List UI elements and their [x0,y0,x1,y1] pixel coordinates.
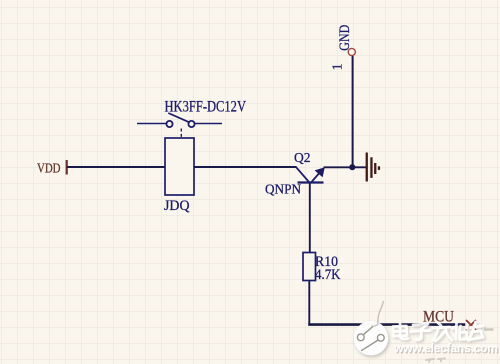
svg-text:VDD: VDD [37,162,61,177]
svg-text:Q2: Q2 [294,151,311,166]
svg-text:HK3FF-DC12V: HK3FF-DC12V [165,99,247,116]
svg-text:4.7K: 4.7K [315,267,341,283]
svg-text:1: 1 [331,63,346,70]
glyph you [469,322,484,341]
svg-text:www.elecfans.com: www.elecfans.com [393,341,498,355]
faint bottom watermark remnant [426,359,445,363]
port VDD [37,160,68,177]
wire bottom rail to MCU [308,323,467,326]
port MCU [466,320,476,330]
glyph fa [433,322,453,341]
relay switch blade [168,113,189,122]
wire Q2 emitter to ground node [324,166,353,168]
watermark dash [484,328,494,331]
GND pin terminal circle [348,48,355,55]
glyph zi [411,324,431,340]
transistor Q2 [296,167,325,183]
wire GND pin vertical [352,56,354,167]
wire relay coil to Q2 collector [194,166,297,168]
resistor R10 [303,253,316,281]
watermark logo [354,301,388,355]
svg-text:QNPN: QNPN [265,182,301,197]
relay switch contact right lead [194,123,222,125]
wire Q2 base lead [309,183,311,253]
relay actuator dashed link [180,129,182,139]
svg-text:GND: GND [337,25,353,51]
ground symbol [366,153,380,182]
glyph dian [393,322,408,339]
relay switch contact left terminal [166,121,172,127]
glyph shao [452,324,467,340]
watermark text dianzifashaoyou [393,322,483,341]
watermark url [393,341,499,356]
relay switch contact right terminal [188,121,194,127]
wire VDD to relay coil [67,166,165,168]
svg-text:JDQ: JDQ [164,198,190,214]
relay coil JDQ [165,138,194,195]
junction node [349,164,355,170]
wire R10 to bottom rail [308,281,310,325]
wire node to ground symbol [355,166,366,168]
relay switch contact left lead [137,123,166,125]
